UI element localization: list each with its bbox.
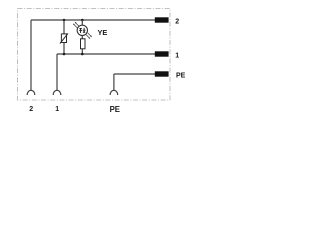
varistor surge suppressor [60,33,68,43]
contact socket pin 1 [53,90,61,95]
contact socket PE [110,90,118,95]
wire: top rail from pin 2 riser to terminal 2 [31,19,155,21]
wire: LED top lead [81,20,83,25]
wire: PE riser [113,74,115,91]
wire: varistor bottom lead [63,42,65,54]
svg-text:PE: PE [176,73,186,80]
wire: lower rail from pin 1 riser to terminal 1 [57,53,155,55]
node junction varistor bottom [63,53,66,56]
node junction resistor bottom [81,53,84,56]
svg-text:PE: PE [110,105,120,114]
wire: pin 2 riser [30,20,32,91]
svg-text:1: 1 [55,106,59,113]
svg-text:YE: YE [98,28,108,37]
contact socket pin 2 [27,90,35,95]
terminal core 2 [155,17,169,22]
wire: PE horizontal to terminal [114,73,155,75]
LED emission arrows upper left [73,22,79,28]
terminal core PE [155,71,169,76]
LED emission arrows lower right [86,33,92,39]
terminal core 1 [155,51,169,56]
svg-text:1: 1 [175,53,179,60]
svg-text:2: 2 [175,19,179,26]
connector housing dashed outline [18,9,171,101]
wire: pin 1 riser [56,54,58,91]
node junction varistor top [63,19,66,22]
LED indicator YE (dual anti-parallel) [77,25,87,35]
node junction LED top [81,19,84,22]
wire: LED to resistor [81,36,83,40]
wire: varistor top lead [63,20,65,34]
svg-text:2: 2 [29,106,33,113]
wire: resistor bottom lead [81,49,83,54]
resistor series [81,39,86,49]
